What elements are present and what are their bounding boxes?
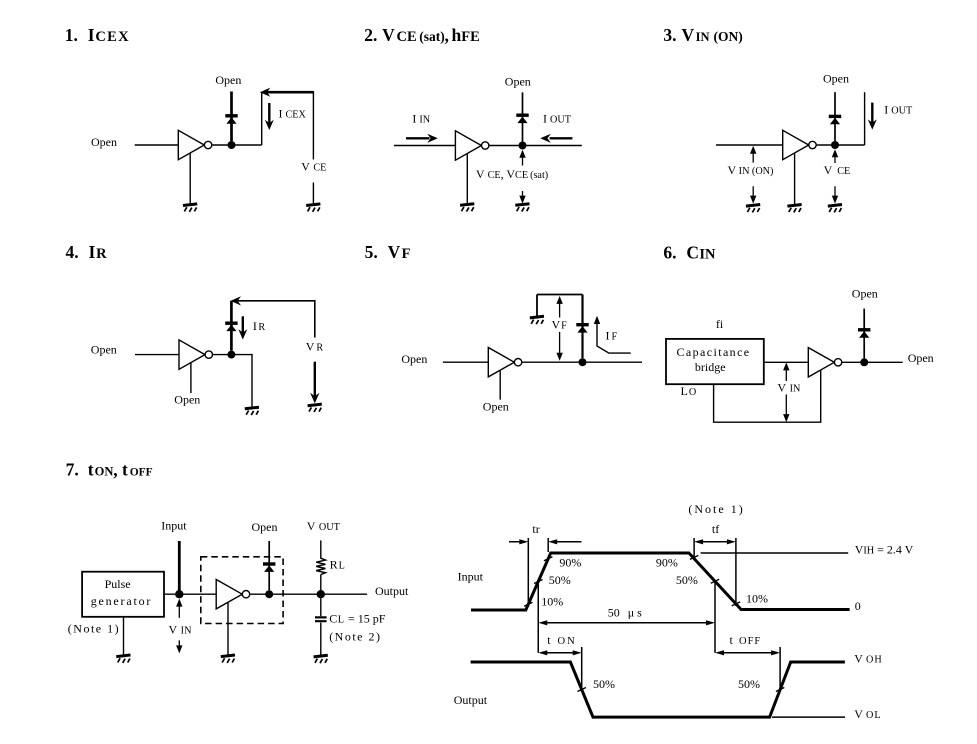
- wire input circuit 3: [716, 144, 783, 146]
- wire output node to capacitor: [320, 598, 322, 616]
- diode D1 circuit 3: [829, 115, 841, 125]
- wire diode branch circuit 5: [581, 295, 583, 359]
- wire output vertical to I OUT: [864, 92, 866, 145]
- VIN measure arrow down circuit 7: [176, 640, 182, 653]
- svg-text:Output: Output: [454, 693, 488, 707]
- op-amp U1 inverter circuit 7: [216, 580, 250, 609]
- wire 50% rise extension: [537, 582, 539, 653]
- svg-text:IR: IR: [253, 319, 266, 333]
- svg-text:50%: 50%: [549, 573, 571, 587]
- svg-text:Open: Open: [505, 75, 531, 89]
- wire diode branch circuit 1: [230, 92, 233, 142]
- wire VCE source lower: [312, 183, 314, 204]
- ground VCE measure circuit 3: [828, 205, 842, 213]
- VIN measure double arrow circuit 6: [783, 362, 789, 422]
- wire inverter output circuit 5: [522, 361, 642, 363]
- wire VOL reference line: [772, 716, 845, 718]
- wire 90% fall extension: [693, 538, 695, 559]
- wire VCE source upper: [312, 91, 314, 160]
- svg-text:VOH: VOH: [854, 652, 882, 666]
- node output junction circuit 6: [860, 358, 868, 366]
- wire inverter ground pin circuit 1: [189, 153, 191, 204]
- op-amp U1 inverter circuit 1: [178, 130, 212, 159]
- node 90% tick rising: [544, 557, 552, 561]
- wire V OUT to resistor: [320, 540, 322, 558]
- svg-text:50%: 50%: [738, 677, 760, 691]
- wire pulse generator ground pin: [123, 617, 125, 655]
- diode D1 circuit 1: [225, 114, 237, 124]
- wire 10% fall extension: [735, 538, 737, 606]
- wire 90% rise extension: [547, 538, 549, 552]
- ground pulse generator: [116, 655, 130, 663]
- diode D1 circuit 7: [263, 562, 275, 572]
- ground output circuit 4: [245, 407, 259, 415]
- svg-text:fi: fi: [716, 317, 724, 331]
- svg-text:Input: Input: [161, 519, 187, 533]
- svg-text:VF: VF: [552, 318, 568, 332]
- wire top line circuit 5: [537, 294, 583, 296]
- svg-text:Open: Open: [908, 351, 934, 365]
- ground inverter circuit 2: [460, 204, 474, 212]
- op-amp U1 inverter circuit 5: [488, 348, 522, 377]
- VCE measure arrow up circuit 3: [832, 149, 838, 163]
- I OUT current arrow circuit 3: [868, 103, 877, 130]
- resistor RL: [316, 558, 325, 574]
- wire diode branch circuit 2: [522, 92, 524, 141]
- VCE measure arrow down circuit 3: [832, 186, 838, 203]
- svg-text:50%: 50%: [676, 573, 698, 587]
- t OFF dimension arrows: [715, 650, 780, 655]
- wire inverter output circuit 6: [842, 361, 903, 363]
- node 50% tick output falling: [578, 688, 586, 692]
- svg-text:CL = 15 pF: CL = 15 pF: [329, 612, 386, 626]
- wire 10% rise extension: [527, 538, 529, 604]
- ground VCE source circuit 1: [306, 204, 320, 212]
- wire output up to arrow: [261, 92, 263, 145]
- svg-text:Open: Open: [91, 343, 117, 357]
- tf dimension arrows: [694, 539, 736, 544]
- VCE measure arrow up: [519, 150, 525, 166]
- svg-text:bridge: bridge: [695, 360, 726, 374]
- wire inverter output circuit 3: [817, 144, 865, 146]
- svg-text:90%: 90%: [559, 555, 581, 569]
- wire input to inverter U1: [135, 144, 179, 146]
- svg-text:Open: Open: [401, 352, 427, 366]
- svg-text:VIN: VIN: [777, 380, 801, 394]
- node diode junction circuit 7: [265, 590, 273, 598]
- node 50% tick falling: [711, 579, 719, 583]
- diode D1 circuit 6: [858, 328, 870, 338]
- IR current arrow: [238, 316, 247, 339]
- wire top line to VR: [231, 296, 315, 305]
- pulse generator box: [82, 572, 164, 617]
- svg-text:Open: Open: [215, 73, 241, 87]
- wire inverter ground pin circuit 2: [466, 154, 468, 204]
- I IN current arrow: [406, 134, 438, 143]
- node output junction circuit 2: [519, 142, 527, 150]
- svg-text:Pulse: Pulse: [105, 577, 131, 591]
- IF current arrow: [594, 316, 631, 353]
- ground VCE measure circuit 2: [515, 204, 529, 212]
- DUT dashed box: [201, 557, 283, 624]
- wire inverter ground pin circuit 7: [227, 603, 229, 655]
- wire inverter output circuit 7: [250, 593, 367, 595]
- svg-text:LO: LO: [681, 384, 697, 398]
- svg-text:tf: tf: [712, 522, 719, 536]
- wire top arrow to VCE source: [260, 88, 314, 97]
- svg-text:(Note 1): (Note 1): [68, 621, 120, 635]
- node 90% tick falling: [690, 555, 698, 559]
- wire resistor to output node: [320, 575, 322, 591]
- op-amp U1 inverter circuit 6: [808, 348, 842, 377]
- node 50% tick rising: [534, 580, 543, 584]
- node output junction circuit 7: [317, 590, 325, 598]
- svg-text:VCE: VCE: [824, 163, 851, 177]
- svg-text:tr: tr: [532, 522, 539, 536]
- wire diode branch circuit 6: [863, 309, 865, 359]
- ground inverter circuit 7: [221, 655, 235, 663]
- wire VR source upper: [314, 300, 316, 338]
- VIN(ON) measure arrow up: [750, 146, 756, 163]
- op-amp U1 inverter circuit 2: [455, 131, 489, 160]
- wire output waveform trace: [471, 662, 845, 717]
- wire inverter output: [212, 144, 261, 146]
- ground capacitor circuit 7: [314, 655, 328, 663]
- I OUT current arrow: [540, 134, 572, 143]
- wire inverter output circuit 2: [490, 145, 582, 147]
- diode D1 circuit 2: [516, 114, 528, 124]
- ground VR source: [308, 404, 322, 412]
- svg-text:RL: RL: [330, 557, 345, 571]
- svg-text:Capacitance: Capacitance: [677, 345, 751, 359]
- node output junction circuit 5: [579, 358, 587, 366]
- I CEX current arrow: [265, 103, 274, 130]
- wire inverter ground pin circuit 4: [190, 363, 192, 393]
- node 10% tick rising: [524, 602, 532, 606]
- ground top circuit 5: [530, 316, 544, 324]
- wire input circuit 4: [135, 354, 179, 356]
- VR source arrow to ground: [310, 362, 319, 404]
- wire 50% fall extension: [714, 581, 716, 653]
- svg-text:Open: Open: [91, 135, 117, 149]
- node output junction circuit 4: [227, 351, 235, 359]
- wire ground drop circuit 5: [536, 295, 538, 316]
- svg-text:10%: 10%: [746, 592, 768, 606]
- tr dimension arrows: [509, 539, 582, 544]
- wire input waveform trace: [471, 553, 850, 610]
- wire t ON right extension: [581, 647, 583, 690]
- svg-text:IF: IF: [606, 328, 618, 342]
- node output junction circuit 1: [228, 141, 236, 149]
- wire inverter output circuit 4: [213, 354, 253, 356]
- wire diode branch circuit 4: [230, 301, 233, 351]
- wire capacitor to ground: [320, 623, 322, 656]
- svg-text:Open: Open: [823, 72, 849, 86]
- diode D1 circuit 4: [225, 322, 237, 332]
- svg-text:generator: generator: [91, 594, 153, 608]
- wire inverter ground pin circuit 3: [794, 153, 796, 204]
- wire bridge to inverter: [764, 361, 809, 363]
- svg-text:VOL: VOL: [854, 707, 881, 721]
- wire pulse generator to DUT: [164, 593, 216, 595]
- wire input circuit 2: [394, 145, 455, 147]
- wire input circuit 5: [443, 361, 488, 363]
- svg-text:VOUT: VOUT: [307, 519, 341, 533]
- svg-text:50%: 50%: [593, 677, 615, 691]
- svg-text:10%: 10%: [541, 595, 563, 609]
- wire VIH reference line: [701, 552, 849, 554]
- ground inverter circuit 3: [787, 205, 801, 213]
- VIN(ON) measure arrow down: [750, 186, 756, 203]
- svg-text:Open: Open: [483, 400, 509, 414]
- diode D1 circuit 5: [576, 323, 588, 333]
- wire diode branch circuit 7: [268, 541, 270, 590]
- svg-text:IIN: IIN: [412, 112, 430, 126]
- node output junction circuit 3: [831, 141, 839, 149]
- VCE measure arrow down: [519, 191, 525, 204]
- svg-text:90%: 90%: [656, 555, 678, 569]
- node 50% tick output rising: [776, 688, 784, 692]
- svg-text:0: 0: [855, 599, 861, 613]
- svg-text:Open: Open: [852, 286, 878, 300]
- 50 microsecond dimension arrow: [538, 620, 715, 625]
- node 10% tick falling: [732, 602, 740, 606]
- wire diode branch circuit 3: [834, 92, 836, 141]
- ground VIN measure circuit 3: [746, 205, 760, 213]
- svg-text:VIN: VIN: [169, 623, 193, 637]
- node input junction circuit 7: [175, 590, 183, 598]
- wire Input vertical: [178, 541, 181, 590]
- ground inverter circuit 1: [183, 204, 197, 212]
- VIN measure arrow up circuit 7: [176, 599, 182, 618]
- svg-text:(Note 1): (Note 1): [688, 502, 744, 516]
- svg-text:Output: Output: [375, 584, 409, 598]
- svg-text:VCE: VCE: [301, 160, 326, 174]
- wire inverter ground pin circuit 5: [499, 371, 501, 400]
- svg-text:Open: Open: [252, 520, 278, 534]
- op-amp U1 inverter circuit 3: [783, 130, 817, 159]
- svg-text:VIH = 2.4 V: VIH = 2.4 V: [855, 542, 914, 556]
- svg-text:Open: Open: [174, 392, 200, 406]
- svg-text:Input: Input: [458, 569, 484, 583]
- op-amp U1 inverter circuit 4: [179, 340, 213, 369]
- VF measure double arrow: [556, 296, 562, 361]
- wire node to ground circuit 4: [251, 355, 253, 408]
- capacitor CL: [315, 617, 327, 621]
- svg-text:(Note 2): (Note 2): [329, 630, 381, 644]
- wire LO return path: [714, 370, 821, 422]
- svg-text:VCE, VCE(sat): VCE, VCE(sat): [476, 167, 548, 181]
- t ON dimension arrows: [538, 650, 581, 655]
- wire t OFF right extension: [779, 647, 781, 690]
- capacitance bridge box: [666, 339, 764, 384]
